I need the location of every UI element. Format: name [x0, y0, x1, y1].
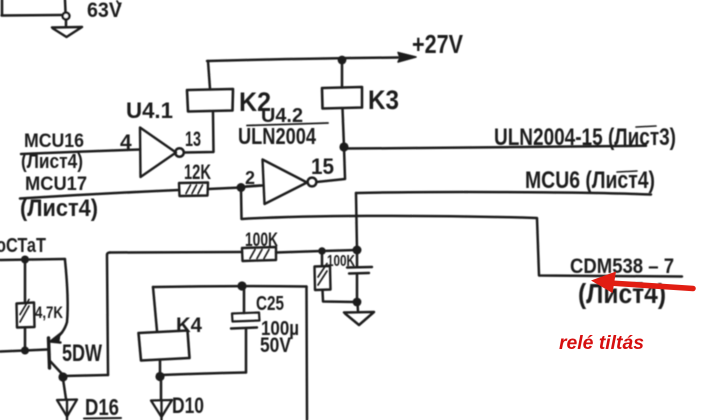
junction node C [353, 246, 362, 255]
wire MCU6 signal [356, 192, 651, 194]
wire node B up to K3 bottom [343, 109, 345, 148]
diode D16 [57, 400, 77, 420]
svg-text:12K: 12K [184, 161, 211, 184]
svg-text:15: 15 [311, 154, 334, 179]
junction node D [21, 256, 29, 264]
red annotation arrow [591, 272, 693, 294]
wire MCU17 input [20, 190, 179, 199]
wire riser up to 100K rail [107, 253, 110, 376]
label MCU16 [24, 130, 84, 152]
svg-text:CDM538 – 7: CDM538 – 7 [570, 255, 674, 278]
wire 100K rail [110, 251, 242, 254]
label +27V [412, 29, 464, 59]
junction node H (ground node) [353, 298, 362, 307]
ground (top-left) [52, 27, 82, 37]
junction node E [21, 347, 29, 355]
wire right vertical from top rail down to bottom edge [305, 287, 308, 420]
wire node E to left edge [0, 351, 25, 352]
junction node J [155, 372, 164, 381]
wire 100K to node G [276, 251, 322, 253]
resistor 4.7K [17, 260, 35, 351]
resistor 100K horizontal [242, 247, 276, 261]
wire остат rail [0, 259, 65, 260]
pin 13 label [185, 128, 201, 151]
wire K4/C25 top rail [153, 285, 307, 288]
wire from terminal to ground [65, 20, 68, 28]
wire node J to C25 bottom [161, 373, 245, 376]
label MCU17 [25, 173, 87, 195]
svg-text:D16: D16 [85, 394, 119, 420]
label K3 [368, 85, 399, 115]
label 4,7K [35, 303, 64, 322]
svg-text:(Лист4): (Лист4) [21, 151, 83, 173]
wire emitter node to riser [63, 375, 108, 376]
wire K2 top lead [208, 61, 210, 89]
relay coil K4 [139, 331, 190, 361]
wire top-left stub [2, 0, 66, 16]
svg-text:63V: 63V [87, 0, 122, 22]
svg-text:ULN2004-15 (Лист3): ULN2004-15 (Лист3) [494, 124, 676, 151]
label ULN2004-15 (Лист3) [494, 124, 676, 151]
resistor 12K [179, 183, 208, 197]
label CDM538-7 [570, 255, 674, 278]
label 100K (horizontal resistor) [245, 230, 278, 251]
svg-text:+27V: +27V [412, 29, 464, 59]
transistor Q 5DW [49, 333, 64, 376]
wire MCU6 branch down to node C [356, 193, 357, 251]
label ULN2004 [238, 123, 316, 149]
wire D16 lead [63, 379, 66, 399]
svg-text:50V: 50V [260, 334, 291, 357]
wire ULN2004-15 signal [344, 146, 646, 149]
svg-text:(Лист4): (Лист4) [20, 195, 98, 222]
svg-text:K4: K4 [176, 314, 202, 337]
label 63V [87, 0, 122, 22]
label 100µ [261, 318, 299, 340]
wire rail left corner down to K4 [153, 287, 157, 331]
diode D10 [151, 400, 172, 420]
label (Лист4) under MCU17 [20, 195, 98, 222]
svg-text:C25: C25 [256, 293, 284, 315]
inverter U4.1 [140, 128, 184, 178]
junction node G [318, 247, 326, 255]
pin 15 label [311, 154, 334, 179]
wire U4.2 output up to node B [317, 147, 346, 182]
label D16 underlined [84, 394, 121, 420]
svg-text:13: 13 [185, 128, 201, 151]
label U4.2 [261, 105, 303, 127]
label 100K (vertical resistor) [327, 253, 355, 270]
wire 12K to node A [208, 188, 241, 190]
relay coil K3 [322, 87, 362, 109]
wire K2 bottom to U4.1 output [184, 112, 214, 153]
svg-text:K3: K3 [368, 85, 399, 115]
wire collector branch down [54, 260, 68, 340]
pin 2 label [245, 168, 260, 188]
wire node A to U4.2 input [241, 186, 262, 188]
svg-text:U4.1: U4.1 [126, 98, 173, 123]
wire K4 bottom lead [159, 360, 162, 374]
wire node E to transistor base [25, 350, 47, 351]
svg-text:MCU16: MCU16 [24, 130, 84, 152]
relay coil K2 [187, 89, 233, 112]
label C25 [256, 293, 284, 315]
resistor 100K vertical [315, 251, 358, 302]
wire node A down and across to CD4538 pin 7 [241, 188, 682, 277]
wire +27V rail with arrow [207, 53, 416, 63]
capacitor C25 [231, 287, 260, 373]
svg-text:100K: 100K [245, 230, 278, 251]
label K2 [239, 87, 271, 117]
svg-text:MCU17: MCU17 [25, 173, 87, 195]
pin 4 label [120, 131, 132, 154]
ground (capacitor) [344, 302, 374, 325]
svg-text:D10: D10 [172, 393, 204, 418]
label остат (thermostat, cut off) [0, 235, 46, 257]
node top-left open terminal [63, 13, 70, 20]
wire node G to node C [322, 250, 357, 251]
capacitor (node C to ground) [347, 250, 372, 302]
svg-text:оСТаТ: оСТаТ [0, 235, 46, 257]
wire K3 top lead [341, 60, 344, 88]
label 50V [260, 334, 291, 357]
svg-text:relé tiltás: relé tiltás [559, 333, 644, 354]
label D10 [172, 393, 204, 418]
junction node B [339, 142, 348, 151]
junction node A [237, 183, 246, 192]
label U4.1 [126, 98, 173, 123]
junction node on +27V rail [338, 56, 347, 65]
wire MCU16 input [21, 150, 140, 155]
label 12K [184, 161, 211, 184]
wire D10 lead [160, 378, 163, 399]
junction node F (emitter) [58, 372, 67, 381]
fraction line U4.2 / ULN2004 [247, 123, 328, 126]
inverter U4.2 [263, 160, 317, 205]
svg-text:ULN2004: ULN2004 [238, 123, 316, 149]
svg-text:5DW: 5DW [62, 340, 102, 367]
label MCU6 (Лист4) [525, 167, 655, 194]
label (Лист4) under MCU16 [21, 151, 83, 173]
label (Лист4) bottom right [578, 278, 666, 309]
label K4 [176, 314, 202, 337]
label 5DW [62, 340, 102, 367]
svg-text:4,7K: 4,7K [35, 303, 64, 322]
junction node I (C25 top) [237, 281, 246, 290]
